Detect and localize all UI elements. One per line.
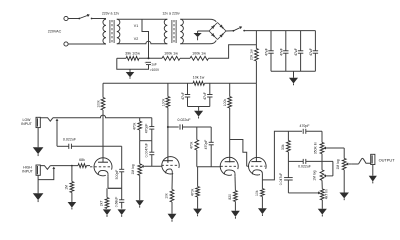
label V2 (134, 37, 138, 41)
svg-text:470pF: 470pF (145, 124, 149, 134)
ground (2k7) (103, 209, 111, 216)
wire: 33k to bottom wire (287, 152, 289, 162)
svg-text:47uF: 47uF (294, 48, 298, 56)
ground (V3 grid leak) (193, 209, 202, 217)
svg-text:1uF: 1uF (151, 63, 157, 67)
svg-text:47uF: 47uF (181, 92, 185, 100)
label 0.0047uF (145, 143, 149, 157)
svg-text:12v à 220v: 12v à 220v (162, 12, 180, 16)
resistor 820 (V3 cathode) (234, 191, 238, 202)
resistor 68k (grid stopper) (78, 164, 87, 168)
label 100k (V1 plate) (96, 100, 100, 108)
wire: 500pF to cathode node (108, 172, 122, 189)
wire: V4 cathode leg (261, 176, 263, 180)
wire: decoupling bottom bus (188, 106, 210, 108)
wire: B2 rail right section (205, 82, 257, 84)
svg-text:2k7: 2k7 (100, 201, 104, 207)
wire: low line drop to 470pF (151, 118, 153, 127)
capacitor 0.022uF (interstage) (180, 124, 183, 129)
label 470k (grid leak) (190, 188, 194, 196)
svg-text:220v à 12v: 220v à 12v (102, 12, 120, 16)
label 68k (79, 158, 85, 162)
wire: V2 cathode to 10k (171, 175, 173, 189)
svg-text:68k: 68k (79, 158, 85, 162)
junction dot (HIGH tip node) (71, 165, 73, 167)
transformer T1 secondary winding (117, 19, 120, 44)
svg-text:1M: 1M (65, 185, 69, 190)
svg-text:10k 1w: 10k 1w (193, 76, 205, 80)
label OUTPUT (379, 158, 396, 163)
wire: wiper to V2 grid (145, 165, 162, 167)
label 500pF (115, 170, 119, 180)
ground (10k V4) (258, 208, 267, 216)
capacitor 0.047uF (tone) (284, 161, 293, 193)
wire: volume pot to ground (139, 175, 141, 200)
resistor 10k (V4 cathode) (261, 189, 265, 197)
label 470pF (bright) (145, 124, 149, 134)
ground (bridge) (194, 33, 202, 40)
switch contact arrow (HIGH jack) (38, 167, 55, 180)
pot wiper (presence, from left) (288, 191, 320, 194)
capacitor 500pF (119, 169, 124, 172)
resistor 20k 1w (255, 49, 259, 62)
label 4k7 lin (325, 189, 329, 199)
transformer T2 core (172, 20, 176, 43)
wire: filter bottom bus (271, 70, 315, 72)
svg-text:100k: 100k (96, 100, 100, 108)
svg-text:470k: 470k (190, 188, 194, 196)
wire: bridge minus to ground (198, 31, 209, 33)
node: 220VAC input terminal (line) (64, 16, 68, 20)
svg-text:350K lin: 350K lin (313, 142, 317, 154)
svg-text:>100V: >100V (150, 68, 160, 72)
capacitor 0.68uF (V1 cathode bypass) (119, 188, 124, 208)
switch S2 standby (233, 26, 246, 31)
label 100k (V2 plate) (161, 98, 165, 106)
wire: low line drop to 470k (139, 118, 141, 122)
wire: 1uF bottom loop (117, 58, 149, 69)
label 47uF C2 (279, 48, 283, 56)
label 20k 1w (250, 49, 254, 60)
resistor 10k (V2 cathode) (170, 190, 174, 203)
label 470pF (tone) (300, 124, 310, 128)
wire: decoupling cap B to bus (209, 97, 211, 107)
capacitor 0.0047uF (bright across pot) (149, 141, 154, 167)
node: 220VAC input terminal (neutral) (64, 42, 68, 46)
wire: 1M to ground (71, 193, 73, 203)
capacitor 470pF (bright) (149, 127, 154, 130)
pot wiper (volume) (141, 165, 145, 168)
ground (820) (231, 211, 240, 219)
wire: rail end down to V4 plate (255, 83, 257, 161)
label 1M (65, 185, 69, 190)
ground (1M) (68, 202, 77, 209)
label 33k (281, 144, 285, 150)
wire: neutral to T1 primary (68, 43, 106, 45)
wire: down to 500pF (121, 146, 123, 169)
wire: output sleeve to ground (372, 165, 374, 176)
triode V1 (90, 158, 112, 177)
svg-text:10k: 10k (255, 190, 259, 196)
svg-text:470pF: 470pF (300, 124, 310, 128)
svg-text:820: 820 (228, 194, 232, 200)
svg-text:47uF: 47uF (203, 92, 207, 100)
wire: loop to ground (129, 69, 131, 72)
wire: LOW tip contact (40, 118, 53, 122)
ground (0.68uF) (118, 209, 126, 216)
wire: tone wiper to volume (330, 148, 345, 158)
ground (volume pot) (136, 200, 144, 207)
wire: coupling cap to drops (183, 126, 212, 128)
junction dot (V2 plate node) (167, 126, 169, 128)
label 2k7 (100, 201, 104, 207)
wire: LOW sleeve to ground (37, 128, 39, 148)
wire: 100k to V1 plate (102, 110, 104, 162)
wire: V3 plate to V4 grid (direct coupling) (230, 140, 247, 167)
svg-text:0.0047uF: 0.0047uF (145, 143, 149, 157)
resistor 39k 1/2w (126, 56, 139, 60)
triode V3 (220, 157, 238, 176)
wire: cathode to 10k (261, 180, 263, 189)
ground (filter bank) (289, 78, 298, 85)
wire: T2 secondary loop to bridge (180, 19, 216, 44)
wire: V1 cathode leg (107, 177, 109, 189)
wire: rail to filter cap C2 (285, 31, 287, 51)
capacitor 47uF (filter C2) (281, 49, 289, 53)
resistor 100k 1w (divider A) (162, 56, 180, 60)
wire: terminal to mains switch (68, 18, 79, 20)
wire: rail to filter cap C3 (300, 31, 302, 51)
svg-text:4k7 lin: 4k7 lin (325, 189, 329, 199)
label >100V (150, 68, 160, 72)
label 39k 1/2w (125, 51, 140, 55)
wire: 470k to grid wire (196, 150, 198, 167)
wire: rail to 100k (V3 plate) (229, 83, 231, 96)
triode V2 (162, 157, 180, 176)
wire: tone bottom wire (288, 160, 333, 162)
capacitor 0.022uF (low input) (69, 144, 72, 149)
label T1 220v a 12v (102, 12, 120, 16)
svg-text:100k 1w: 100k 1w (164, 51, 178, 55)
wire: V2 plate node to coupling cap (168, 126, 179, 128)
label LOW INPUT (21, 118, 32, 126)
resistor 10k 1w (rail) (193, 81, 205, 85)
transformer T2 primary winding (164, 19, 167, 44)
label 100k (V3 plate) (223, 99, 227, 107)
ground (output jack) (369, 176, 377, 184)
svg-text:V2: V2 (134, 37, 138, 41)
pot wiper loop (depth) (324, 161, 333, 177)
label 47uF (B) (203, 92, 207, 100)
wire: decoupling cap A to bus (187, 97, 189, 107)
bridge rectifier D1-D4 (209, 23, 226, 40)
wire: decoupling bus to ground (198, 107, 200, 111)
wire: HIGH tip contact (40, 166, 50, 170)
capacitor 47uF (filter C1) (266, 49, 274, 53)
wire: between divider resistors (180, 57, 190, 59)
wire: filter cap C4 to bottom bus (314, 53, 316, 71)
capacitor 47uF (filter C3) (296, 49, 304, 53)
label 220VAC (48, 30, 62, 34)
resistor 100k (V1 plate load) (101, 98, 105, 111)
svg-text:10k: 10k (164, 193, 168, 199)
label 820 (228, 194, 232, 200)
ground (master pot) (339, 193, 348, 201)
label 47uF (A) (181, 92, 185, 100)
svg-text:0.022uF: 0.022uF (298, 164, 311, 168)
wire: 100k to V3 plate (229, 108, 231, 162)
wire: rail corner to 100k (V1 plate) (102, 83, 104, 97)
ground (HIGH jack) (33, 193, 44, 202)
capacitor 47uF (decoupling B) (207, 95, 212, 98)
wire: 470k to join (139, 130, 141, 141)
wire: filter cap C2 to bottom bus (285, 53, 287, 71)
ground (presence pot) (318, 209, 327, 217)
wire: tone pot bottom (321, 154, 323, 162)
wire: B2 rail left section (103, 82, 193, 84)
label 470k (V3 series) (189, 141, 193, 149)
label HIGH INPUT (22, 166, 33, 174)
label 47uF C1 (265, 48, 269, 56)
svg-text:47uF: 47uF (309, 48, 313, 56)
svg-text:1M log: 1M log (131, 164, 135, 174)
wire: cathode node to bypass cap (108, 187, 122, 189)
resistor 100k (V3 plate load) (228, 97, 232, 109)
wire: grid leak to ground (197, 197, 199, 209)
label 0.022uF (tone) (298, 164, 311, 168)
wire: rail to filter cap C1 (270, 31, 272, 51)
svg-text:1M log: 1M log (336, 159, 340, 169)
wire: bridge plus to standby switch (226, 30, 233, 32)
wire: LOW line with hop over plate line (53, 115, 152, 118)
resistor 100k 1w (divider B) (190, 56, 209, 60)
wire: 100k to V2 plate (167, 108, 169, 163)
wire: V3 grid wire (197, 166, 221, 168)
wire: 20k to B2 rail (255, 61, 257, 83)
label 470pF (V3) (204, 140, 208, 150)
label 1uF (151, 63, 157, 67)
wire: cathode to 2k7 (106, 188, 108, 197)
capacitor 470pF (tone top) (303, 129, 306, 134)
wire: low input cap wire (57, 145, 122, 147)
wire: bias node left (117, 57, 126, 59)
wire: drop to 470k series (196, 127, 198, 140)
svg-text:1M log: 1M log (313, 170, 317, 180)
label 1M log (volume) (131, 164, 135, 174)
potentiometer 350K lin (tone) (320, 142, 324, 153)
wire: depth pot to presence pot (321, 180, 323, 189)
wire: HIGH sleeve to ground (37, 175, 39, 193)
wire: V3 cathode to 820 (234, 176, 236, 190)
potentiometer 1M log (volume) (138, 164, 142, 176)
wire: divider to B+ node (209, 45, 257, 59)
wire: 10k to ground (261, 197, 263, 209)
svg-text:220VAC: 220VAC (48, 30, 62, 34)
label + (1uF polarity) (144, 61, 146, 65)
wire: switch to T1 primary (92, 18, 106, 20)
junction dot (bias node) (148, 57, 150, 59)
ground (10k V2) (168, 214, 177, 222)
svg-text:INPUT: INPUT (21, 122, 32, 126)
wire: filter cap C1 to bottom bus (270, 53, 272, 71)
ground (decoupling) (194, 111, 203, 119)
wire: HIGH tip line (50, 165, 78, 167)
svg-text:20k 1w: 20k 1w (250, 49, 254, 60)
wire: drop to 470pF (210, 127, 212, 142)
label 470k (series) (132, 122, 136, 130)
resistor 100k (V2 plate load) (166, 97, 170, 108)
label 100k 1w (divider A) (164, 51, 178, 55)
wire: rail to 100k (V2 plate) (167, 83, 169, 96)
label 47uF C3 (294, 48, 298, 56)
ground (bias loop) (126, 72, 135, 79)
capacitor 47uF (filter C4) (310, 49, 318, 53)
potentiometer 1M log (depth) (320, 170, 324, 180)
switch S1 mains (lever with arrow) (78, 14, 92, 19)
pot wiper (tone) (324, 147, 330, 150)
svg-text:100k: 100k (161, 98, 165, 106)
svg-text:39k 1/2w: 39k 1/2w (125, 51, 140, 55)
svg-text:0.047uF: 0.047uF (279, 173, 283, 185)
wire: wiper to output contact (351, 158, 370, 164)
capacitor 0.022uF (tone bottom) (303, 159, 306, 164)
wire: filter cap C3 to bottom bus (300, 53, 302, 71)
wire: 470pF to grid wire (210, 145, 212, 167)
potentiometer 1M log (master volume) (342, 158, 346, 169)
transformer T2 secondary winding (180, 19, 183, 44)
svg-text:500pF: 500pF (115, 170, 119, 180)
pot wiper (master) (346, 163, 352, 166)
wire: top wire to tone pot (321, 131, 323, 142)
wire: bottom node to depth pot (321, 161, 323, 170)
wire: join to volume pot (139, 141, 141, 164)
label 0.68uF (115, 197, 119, 208)
resistor 470k (series) (138, 121, 142, 130)
svg-text:33k: 33k (281, 144, 285, 150)
jack LOW INPUT (36, 117, 40, 127)
label T2 12v a 220v (162, 12, 180, 16)
wire: 10k to ground (171, 202, 173, 214)
label 10k 1w (193, 76, 205, 80)
wire: parallel pair join (140, 140, 152, 142)
svg-text:0.68uF: 0.68uF (115, 197, 119, 208)
wire: master pot to ground (343, 170, 345, 193)
wire: heater winding tap to bias node (142, 19, 149, 58)
label 0.022uF (interstage) (177, 118, 191, 122)
wire: 39k to tap node (139, 57, 162, 59)
wire: rail to filter cap C4 (314, 31, 316, 51)
svg-text:47uF: 47uF (279, 48, 283, 56)
label 1M log (master) (336, 159, 340, 169)
svg-text:100k: 100k (223, 99, 227, 107)
ground (LOW jack) (33, 147, 44, 156)
svg-text:0.022uF: 0.022uF (177, 118, 191, 122)
transformer T1 primary winding (103, 19, 106, 44)
svg-text:+: + (144, 61, 146, 65)
wire: 820 to ground (234, 202, 236, 211)
potentiometer 4k7 lin (presence) (320, 189, 324, 200)
label 1M log (depth) (313, 170, 317, 180)
jack OUTPUT (371, 154, 375, 164)
resistor 2k7 (V1 cathode) (105, 198, 109, 209)
label 10k (V4) (255, 190, 259, 196)
resistor 33k (tone) (287, 141, 291, 152)
wire: 68k to V1 grid (87, 165, 91, 167)
resistor 470k (V3 grid leak) (196, 187, 200, 198)
jack HIGH INPUT (36, 165, 40, 175)
resistor 1M (grid leak V1) (70, 182, 74, 193)
svg-text:470k: 470k (132, 122, 136, 130)
label 0.022uF (low input) (63, 137, 77, 141)
label 350K lin (313, 142, 317, 154)
wire: grid wire to grid leak (197, 167, 199, 187)
wire: heater rail bottom with hop over bias tap (117, 41, 168, 43)
wire: filter bus to ground (293, 71, 295, 78)
wire: heater rail top (117, 18, 168, 20)
wire: V4 cathode out riser (262, 131, 302, 180)
triode V4 (247, 157, 266, 176)
wire: B+ top rail (244, 30, 315, 32)
label 47uF C4 (309, 48, 313, 56)
wire: rail to decoupling cap A (187, 83, 189, 94)
wire: top wire to 33k (287, 131, 289, 140)
capacitor 47uF (decoupling A) (185, 95, 190, 98)
svg-text:470pF: 470pF (204, 140, 208, 150)
svg-text:470k: 470k (189, 141, 193, 149)
svg-text:100k 1w: 100k 1w (192, 51, 206, 55)
switch contact arrow (LOW jack) (56, 119, 59, 147)
wire: rail to decoupling cap B (209, 83, 211, 94)
transformer T1 core (110, 20, 114, 43)
svg-text:0.022uF: 0.022uF (63, 137, 77, 141)
resistor 470k (V3 series) (195, 140, 199, 150)
label 100k 1w (divider B) (192, 51, 206, 55)
svg-text:OUTPUT: OUTPUT (379, 158, 396, 163)
label 10k (V2) (164, 193, 168, 199)
wire: presence pot to ground (321, 200, 323, 209)
wire: 470pF to join (151, 129, 153, 141)
label V1 (134, 24, 138, 28)
label 0.047uF (279, 173, 283, 185)
capacitor 1uF >100V (bias) (146, 62, 151, 64)
wire: B+ to 20k (255, 31, 257, 49)
svg-text:V1: V1 (134, 24, 138, 28)
svg-text:47uF: 47uF (265, 48, 269, 56)
capacitor 470pF (V3) (209, 142, 214, 145)
wire: tone top wire right (306, 130, 322, 132)
wire: tip node to 1M (71, 166, 73, 182)
svg-text:INPUT: INPUT (22, 170, 33, 174)
